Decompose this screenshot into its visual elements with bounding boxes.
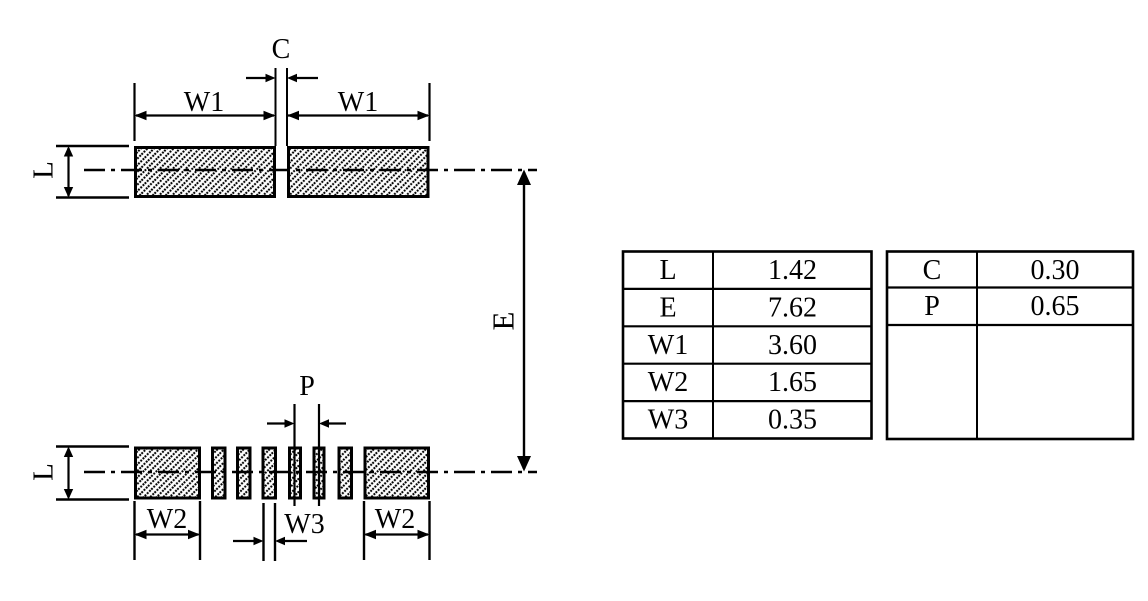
pad P10 bottom-right large hatched pad	[365, 448, 429, 498]
svg-text:P: P	[924, 291, 940, 322]
dimension arrow P right	[319, 419, 346, 427]
svg-text:7.62: 7.62	[768, 292, 817, 323]
table T2 row C 0.30	[923, 255, 1080, 286]
extension line L-top lower	[56, 196, 129, 198]
extension line W1 far-left	[133, 83, 135, 141]
dimension arrow W3 right	[275, 537, 307, 545]
svg-text:W1: W1	[648, 330, 688, 361]
svg-text:L: L	[28, 463, 60, 481]
svg-text:W2: W2	[147, 504, 187, 535]
svg-text:1.42: 1.42	[768, 255, 817, 286]
svg-text:W3: W3	[284, 509, 324, 540]
dimension arrow L top vertical	[64, 146, 73, 198]
pad P8 narrow hatched pad 5	[314, 448, 324, 498]
pad P7 narrow hatched pad 4	[290, 448, 301, 498]
dimension line W1 right with arrowheads	[287, 111, 430, 120]
table T1 dimension values left	[623, 252, 872, 439]
svg-text:1.65: 1.65	[768, 367, 817, 398]
svg-text:L: L	[659, 255, 676, 286]
extension line L-bottom lower	[56, 498, 129, 500]
svg-text:0.35: 0.35	[768, 405, 817, 436]
svg-text:3.60: 3.60	[768, 330, 817, 361]
dimension line W2 right with arrowheads	[364, 530, 430, 539]
extension line C right	[286, 68, 288, 146]
extension line P right (through pad 5)	[318, 404, 320, 506]
pad P6 narrow hatched pad 3	[263, 448, 276, 498]
dimension arrow C left	[246, 74, 276, 82]
extension line L-top upper	[56, 145, 129, 147]
svg-text:W2: W2	[375, 504, 415, 535]
dimension arrow L bottom vertical	[64, 447, 73, 500]
svg-text:W3: W3	[648, 405, 688, 436]
table T2 row P 0.65	[924, 291, 1079, 322]
extension line W2-left b	[199, 501, 201, 560]
dimension line W1 left with arrowheads	[135, 111, 276, 120]
dimension line E vertical with arrowheads	[517, 170, 531, 472]
svg-text:E: E	[659, 292, 676, 323]
svg-text:W1: W1	[338, 87, 378, 118]
dimension arrow C right	[287, 74, 318, 82]
extension line W3 right	[274, 503, 276, 561]
extension line L-bottom upper	[56, 445, 129, 447]
svg-text:E: E	[486, 312, 521, 331]
table T1 row W2 1.65	[648, 367, 817, 398]
extension line W1 far-right	[428, 83, 430, 141]
dimension arrow P left	[267, 419, 295, 427]
table T1 row W1 3.60	[648, 330, 817, 361]
svg-text:P: P	[299, 371, 315, 402]
extension line W2-left a	[133, 501, 135, 560]
table T1 row E 7.62	[659, 292, 817, 323]
table T1 row L 1.42	[659, 255, 817, 286]
svg-text:0.30: 0.30	[1031, 255, 1080, 286]
extension line P left (through pad 4)	[293, 404, 295, 506]
svg-text:C: C	[923, 255, 942, 286]
svg-text:L: L	[28, 161, 60, 179]
extension line W2-right a	[363, 501, 365, 560]
table T1 row W3 0.35	[648, 405, 817, 436]
pad P2 top-right hatched rectangle	[289, 148, 429, 197]
svg-text:W2: W2	[648, 367, 688, 398]
svg-text:0.65: 0.65	[1031, 291, 1080, 322]
pad P5 narrow hatched pad 2	[238, 448, 251, 498]
centerline bottom (dash-dot)	[84, 471, 537, 473]
dimension line W2 left with arrowheads	[135, 530, 201, 539]
dimension arrow W3 left	[233, 537, 264, 545]
pad P9 narrow hatched pad 6	[339, 448, 352, 498]
pad P4 narrow hatched pad 1	[213, 448, 226, 498]
svg-text:W1: W1	[184, 87, 224, 118]
centerline top (dash-dot)	[84, 169, 537, 171]
pad P1 top-left hatched rectangle	[136, 148, 275, 197]
table T2 dimension values right	[887, 252, 1133, 440]
extension line W3 left	[262, 503, 264, 561]
pad P3 bottom-left large hatched pad	[136, 448, 200, 498]
svg-text:C: C	[272, 34, 291, 65]
extension line C left	[275, 68, 277, 146]
extension line W2-right b	[428, 501, 430, 560]
